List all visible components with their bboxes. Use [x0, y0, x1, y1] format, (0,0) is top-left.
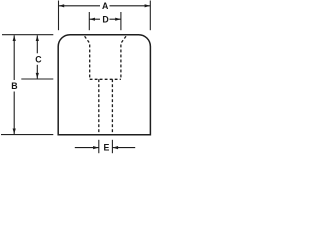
svg-text:A: A: [102, 1, 109, 11]
svg-text:C: C: [35, 55, 42, 65]
svg-text:B: B: [11, 81, 17, 91]
svg-text:E: E: [103, 143, 109, 153]
svg-text:D: D: [102, 15, 108, 25]
